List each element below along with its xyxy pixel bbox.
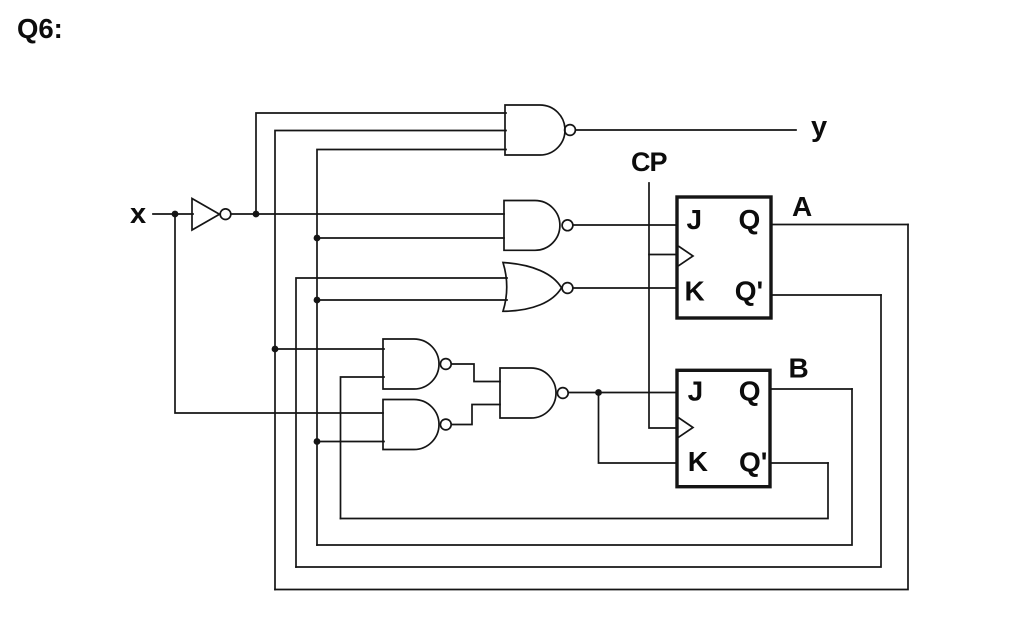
svg-text:J: J: [688, 375, 704, 406]
wire FF A Q' output: [772, 294, 881, 296]
wire G5 out to FF B J: [569, 392, 678, 394]
FF A clock triangle: [679, 247, 693, 266]
svg-text:CP: CP: [631, 147, 667, 177]
flip-flop U3 (FF B) box: [677, 370, 770, 486]
wire B to NOR G3 input 2: [317, 299, 507, 301]
node x' junction: [253, 211, 260, 218]
wire G3 out to FF A K: [573, 287, 677, 289]
NAND G2 (2-input): [504, 201, 560, 251]
wire CP vertical: [649, 183, 677, 428]
wire x to lower NAND G4 input 1: [175, 214, 383, 413]
NAND G1 (3-input, output y): [505, 105, 565, 155]
wire net B: vertical + top NAND G1 input 3: [317, 150, 506, 546]
wire y output: [576, 129, 797, 131]
node G5 output junction: [595, 389, 602, 396]
node B tap 2: [314, 297, 321, 304]
NAND G2 bubble: [562, 220, 573, 231]
wire x' up to NAND G1 input 1: [256, 113, 506, 214]
wire B feedback bottom: [317, 389, 852, 545]
wire net B': vertical + NAND G4a input 2: [341, 377, 385, 519]
wire FF A Q output: [772, 224, 908, 226]
svg-text:Q': Q': [735, 276, 763, 307]
svg-text:x: x: [130, 198, 146, 230]
svg-text:A: A: [792, 191, 812, 222]
NAND G4 (lower small): [383, 400, 439, 450]
svg-text:J: J: [687, 204, 703, 235]
svg-text:B: B: [789, 353, 809, 384]
svg-text:K: K: [685, 275, 705, 306]
NAND G4 bubble: [440, 419, 451, 430]
wire FF B Q' output: [771, 462, 828, 464]
NAND G4a bubble: [440, 359, 451, 370]
wire A' feedback bottom: [296, 295, 881, 567]
wire net A: vertical + top NAND G1 input 2: [275, 131, 506, 590]
wire FF B Q output: [771, 388, 852, 390]
svg-text:Q': Q': [739, 447, 767, 478]
inverter U1: [192, 199, 220, 231]
NOR G3 bubble: [562, 283, 573, 294]
wire x' to NAND G2 input 1: [231, 213, 504, 215]
node x junction: [172, 211, 179, 218]
node A tap: [272, 346, 279, 353]
svg-text:Q: Q: [739, 204, 761, 235]
wire CP stub to FF A clock: [649, 254, 677, 256]
FF B clock triangle: [679, 418, 693, 437]
node B tap 3: [314, 438, 321, 445]
NAND G5 (final): [500, 368, 556, 418]
wire B to NAND G4 input 2: [317, 441, 384, 443]
wire A feedback bottom: [275, 225, 908, 590]
wire A to NAND G4a input 1: [275, 348, 384, 350]
wire B' feedback bottom: [341, 463, 829, 519]
wire G4 out to G5 input 2: [452, 405, 501, 425]
svg-text:Q: Q: [739, 375, 761, 406]
NAND G1 bubble: [565, 125, 576, 136]
NAND G4a (upper small): [383, 339, 439, 389]
wire net A': vertical + NOR G3 input 1: [296, 278, 507, 567]
flip-flop U2 (FF A) box: [677, 197, 771, 318]
svg-text:y: y: [811, 111, 827, 143]
NOR G3: [503, 263, 562, 312]
wire G4a out to G5 input 1: [452, 364, 501, 382]
node B tap 1: [314, 235, 321, 242]
svg-text:Q6:: Q6:: [17, 13, 63, 44]
wire G2 out to FF A J: [573, 224, 677, 226]
wire G5 out to FF B K: [599, 393, 678, 464]
wire x input: [153, 213, 193, 215]
inverter U1 bubble: [220, 209, 231, 220]
NAND G5 bubble: [557, 388, 568, 399]
wire B to NAND G2 input 2: [317, 237, 504, 239]
svg-text:K: K: [688, 446, 708, 477]
